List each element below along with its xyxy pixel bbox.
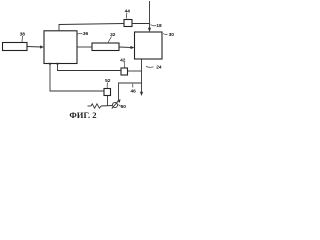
svg-text:38: 38 — [20, 32, 26, 38]
svg-text:42: 42 — [120, 58, 126, 64]
svg-text:36: 36 — [83, 31, 89, 37]
svg-text:44: 44 — [125, 9, 131, 15]
svg-text:30: 30 — [169, 32, 175, 38]
svg-text:ФИГ. 2: ФИГ. 2 — [69, 110, 96, 120]
svg-text:50: 50 — [121, 104, 127, 110]
svg-text:18: 18 — [156, 23, 162, 29]
svg-text:24: 24 — [156, 65, 162, 71]
svg-text:32: 32 — [110, 32, 116, 38]
svg-text:46: 46 — [131, 89, 137, 95]
svg-text:52: 52 — [105, 78, 111, 84]
